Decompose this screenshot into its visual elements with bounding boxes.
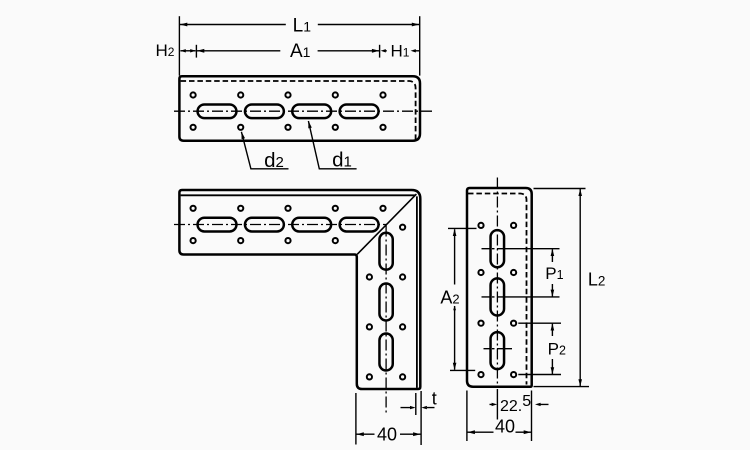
centerline vertical (right view) bbox=[496, 178, 498, 389]
slot A (L-view vertical arm) bbox=[379, 233, 392, 270]
L2 extension line bottom bbox=[534, 386, 590, 388]
bend line dashed (top view) bbox=[181, 81, 416, 140]
L-bracket outline bbox=[179, 190, 420, 389]
svg-text:L1: L1 bbox=[293, 16, 312, 37]
svg-text:A1: A1 bbox=[290, 41, 311, 62]
40 arrowheads (right view) bbox=[467, 430, 475, 434]
holes bottom row (L-view horizontal arm) bbox=[191, 238, 196, 243]
slot 2 (right view) bbox=[491, 278, 505, 315]
svg-text:40: 40 bbox=[495, 417, 515, 437]
slot 1 cross centerline (right view, P1 upper extension) bbox=[482, 248, 560, 250]
holes bottom row (top view) bbox=[191, 125, 196, 130]
A2 arrowheads bbox=[453, 229, 457, 236]
t extension line inner bbox=[415, 393, 417, 415]
slot 4 (L-view horizontal arm) bbox=[340, 218, 379, 232]
svg-text:40: 40 bbox=[377, 424, 397, 444]
L1 extension line left bbox=[178, 16, 180, 75]
centerline extension below plate (right view) bbox=[496, 389, 498, 420]
slot C (L-view vertical arm) bbox=[379, 334, 392, 371]
svg-text:t: t bbox=[432, 389, 437, 409]
40 extension line left (right view) bbox=[466, 391, 468, 442]
holes left column (right view) bbox=[478, 223, 483, 228]
inner fold line top (L-view) bbox=[181, 194, 416, 196]
L1 dimension line bbox=[180, 24, 419, 26]
H2 arrowheads bbox=[180, 49, 186, 52]
slot 3 (L-view horizontal arm) bbox=[292, 218, 331, 232]
slot 3 (top view) bbox=[292, 104, 331, 118]
centerline horizontal (L-view) bbox=[174, 224, 386, 226]
holes left column (L-view vertical arm) bbox=[367, 274, 372, 279]
L2 extension line top bbox=[534, 188, 586, 190]
slot 1 (top view) bbox=[198, 104, 237, 118]
A1 tick left bbox=[195, 45, 197, 58]
slot 3 cross centerline (right view) bbox=[484, 348, 513, 350]
slot 3 (right view) bbox=[491, 332, 505, 369]
H1 arrowheads bbox=[381, 49, 386, 52]
t arrow tails bbox=[401, 407, 435, 409]
centerline (top view) bbox=[174, 110, 433, 112]
slot 2 (top view) bbox=[245, 104, 284, 118]
L1 arrowheads bbox=[180, 23, 188, 27]
holes top row (top view) bbox=[191, 92, 196, 97]
t extension line outer / 40 right extension bbox=[420, 391, 422, 445]
A2 extension line bottom bbox=[450, 369, 475, 371]
bend line dashed (right view) bbox=[468, 194, 527, 385]
A1 dimension line bbox=[197, 50, 379, 52]
plate outline (top view) bbox=[179, 76, 420, 141]
P1 arrowheads bbox=[551, 249, 555, 256]
slot 1 (L-view horizontal arm) bbox=[198, 218, 237, 232]
slot 4 (top view) bbox=[340, 104, 379, 118]
A2 small arrowhead below label bbox=[453, 306, 456, 311]
centerline vertical (L-view) bbox=[385, 226, 387, 414]
22.5 arrow tails bbox=[490, 403, 549, 405]
slot 2 (L-view horizontal arm) bbox=[245, 218, 284, 232]
holes right column (right view) bbox=[511, 223, 516, 228]
40 arrowheads (L-view) bbox=[356, 432, 364, 436]
L2 arrowheads bbox=[578, 189, 582, 196]
plate outline (right view) bbox=[467, 188, 532, 387]
P2 dimension line bbox=[551, 324, 553, 374]
t arrowheads bbox=[410, 406, 416, 409]
L1 extension line right bbox=[419, 16, 421, 75]
H1 arrow tails bbox=[385, 50, 419, 52]
22.5 arrowheads bbox=[492, 403, 498, 406]
40 dimension line (L-view) bbox=[356, 433, 420, 435]
P1 dimension line bbox=[551, 249, 553, 296]
P2 extension line bottom bbox=[518, 374, 561, 376]
L2 dimension line bbox=[579, 189, 581, 386]
40 dimension line (right view) bbox=[467, 431, 531, 433]
A2 extension line top bbox=[448, 227, 477, 229]
40 extension line left (L-view) bbox=[355, 393, 357, 445]
slot B (L-view vertical arm) bbox=[379, 284, 392, 321]
slot 2 cross centerline (right view, P1 lower extension) bbox=[482, 296, 560, 298]
leader d1 bbox=[308, 121, 356, 169]
miter diagonal (L-view) bbox=[357, 194, 416, 254]
P2 extension line top bbox=[518, 322, 561, 324]
holes top row (L-view horizontal arm) bbox=[191, 206, 196, 211]
H2 dimension line bbox=[180, 50, 195, 52]
slot 1 (right view) bbox=[491, 230, 505, 267]
P2 arrowheads bbox=[551, 323, 555, 330]
A1 arrowheads bbox=[197, 49, 205, 53]
A2 dimension line bbox=[454, 229, 456, 370]
A1 tick right bbox=[379, 45, 381, 58]
holes right column (L-view vertical arm) bbox=[400, 225, 405, 230]
leader d2 bbox=[241, 132, 288, 169]
inner fold line right (L-view) bbox=[416, 196, 418, 388]
40 extension line right (right view) bbox=[531, 391, 533, 442]
